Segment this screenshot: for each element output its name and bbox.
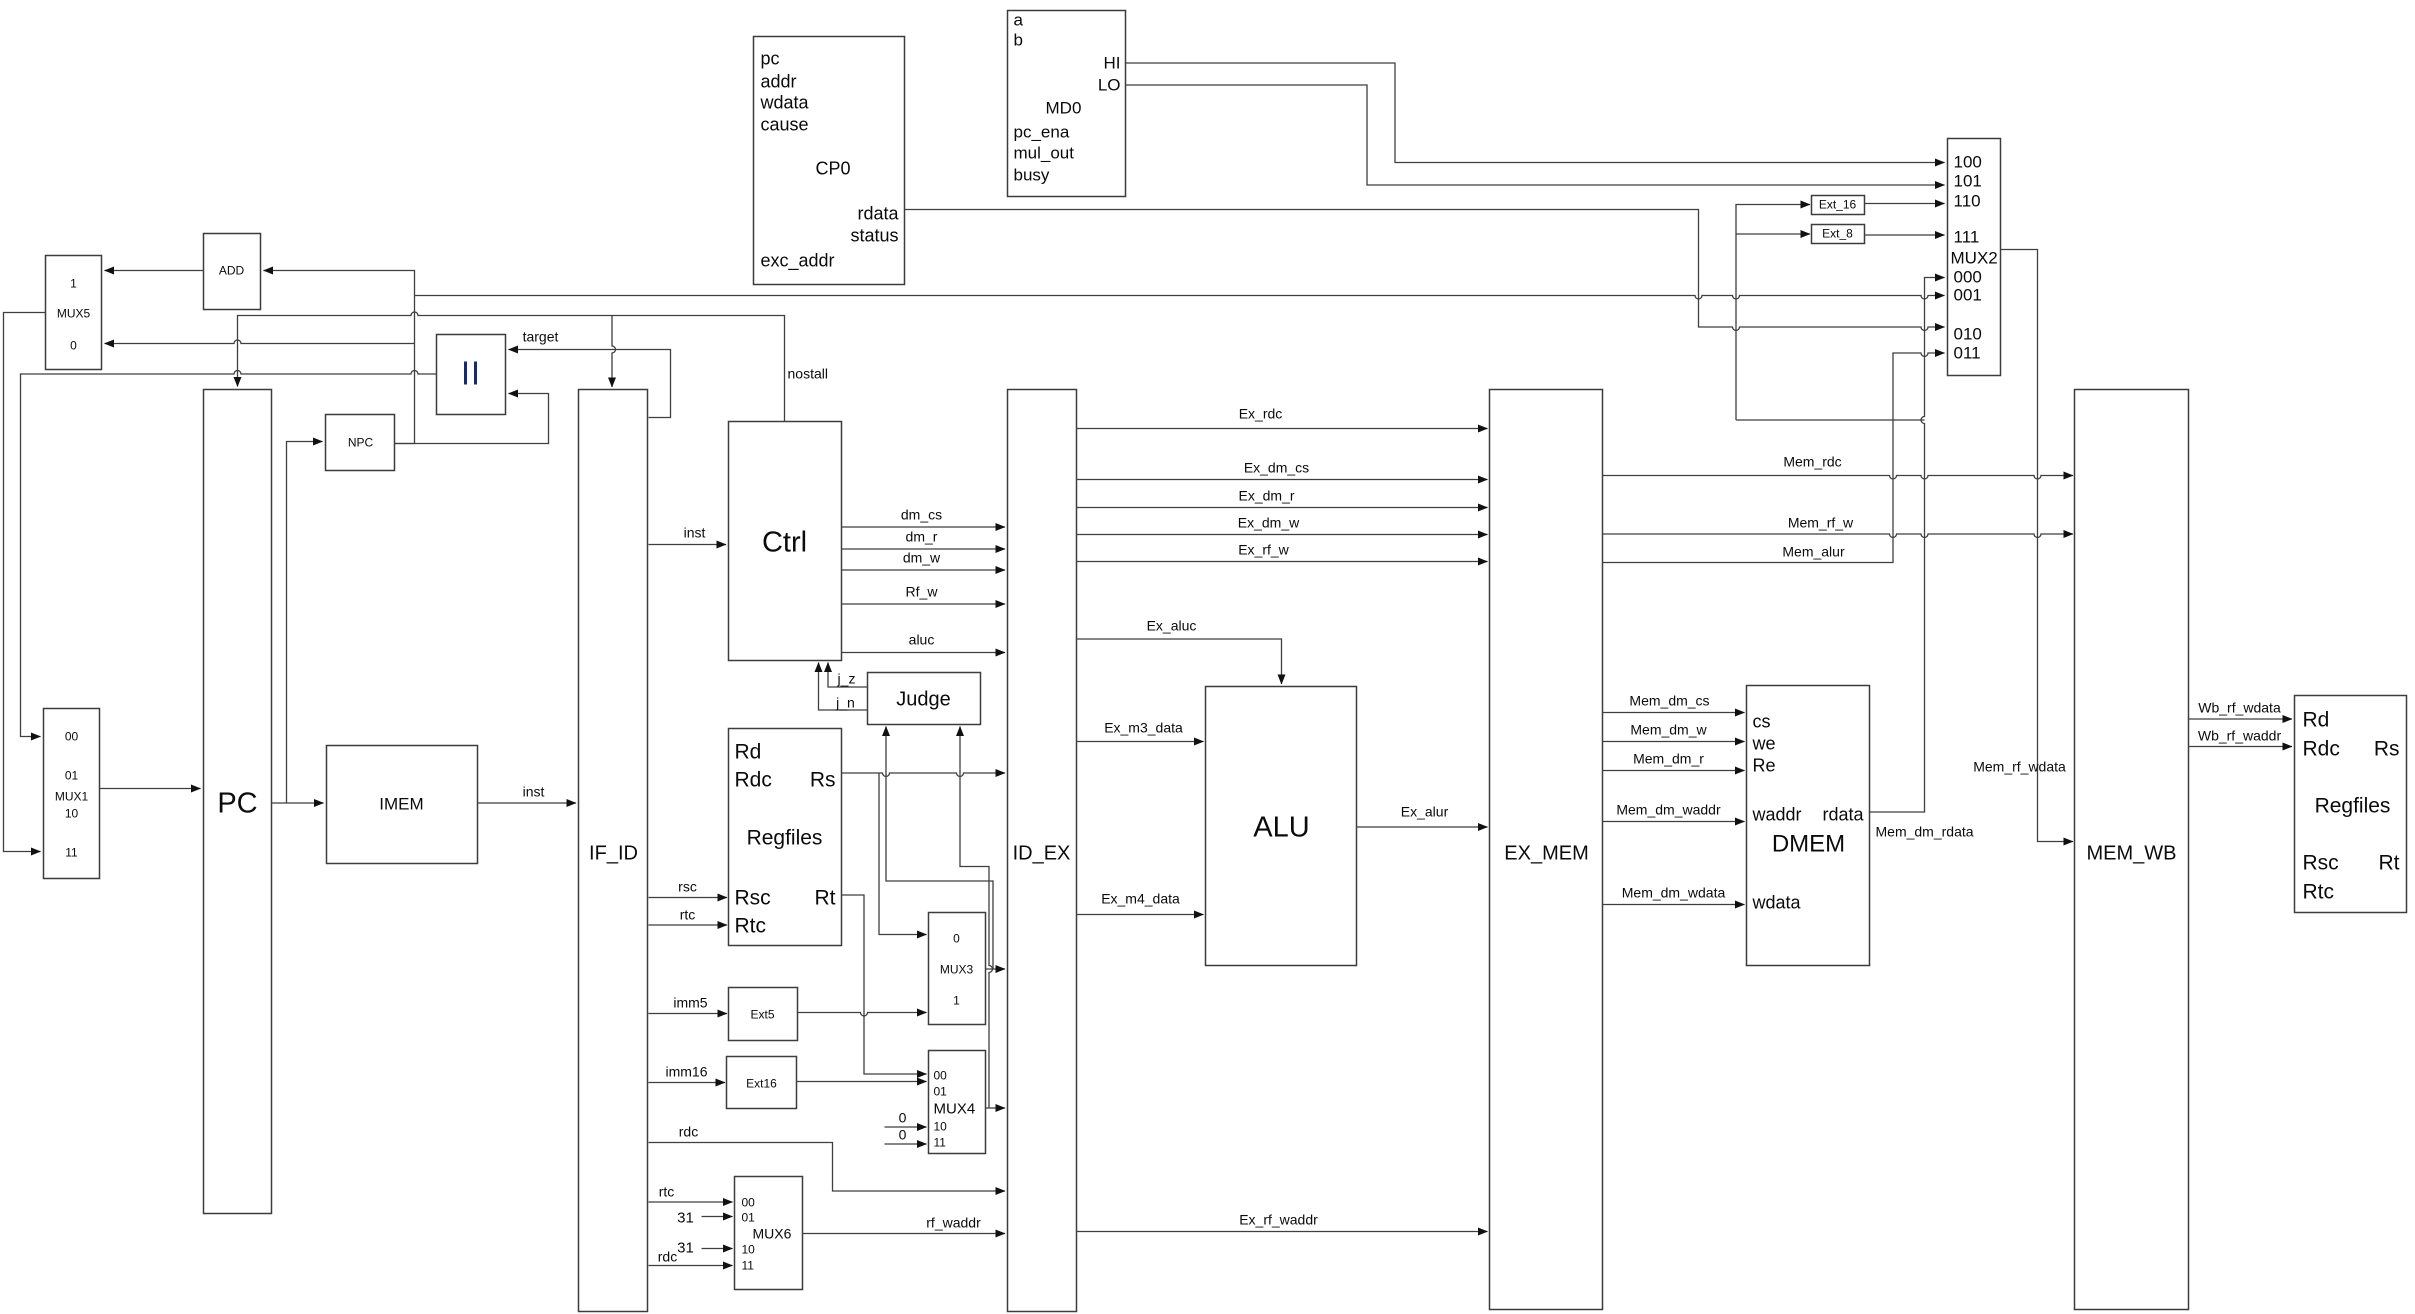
wire NPC output to concat unit lower input [395, 394, 549, 444]
svg-text:01: 01 [934, 1085, 948, 1099]
svg-text:EX_MEM: EX_MEM [1504, 843, 1588, 865]
svg-text:1: 1 [953, 994, 960, 1008]
IF_ID box [579, 390, 648, 1312]
MUX2 box [1948, 139, 2001, 376]
wire MUX2 output down to MEM_WB [2001, 250, 2074, 842]
svg-text:ID_EX: ID_EX [1013, 843, 1071, 865]
svg-text:Re: Re [1753, 756, 1776, 776]
svg-text:Rdc: Rdc [2303, 738, 2340, 761]
svg-text:IF_ID: IF_ID [589, 843, 638, 865]
svg-text:wdata: wdata [1752, 893, 1802, 913]
svg-text:10: 10 [934, 1120, 948, 1134]
svg-text:Ex_m4_data: Ex_m4_data [1101, 891, 1180, 907]
MUX6 box [735, 1177, 803, 1290]
wire PC output branch up to NPC input [287, 442, 323, 804]
svg-text:1: 1 [70, 277, 77, 291]
wire Rt output to MUX4 input 00 [842, 895, 927, 1074]
svg-text:Rs: Rs [2374, 738, 2400, 761]
svg-text:MUX3: MUX3 [940, 963, 974, 977]
svg-text:rdata: rdata [1822, 805, 1864, 825]
svg-text:Ex_dm_cs: Ex_dm_cs [1244, 460, 1309, 476]
svg-text:Rd: Rd [2303, 709, 2330, 732]
svg-text:Mem_dm_waddr: Mem_dm_waddr [1616, 802, 1721, 818]
svg-text:CP0: CP0 [816, 159, 851, 179]
svg-text:00: 00 [65, 730, 79, 744]
svg-text:waddr: waddr [1752, 805, 1802, 825]
svg-text:a: a [1014, 11, 1024, 30]
wire Ex_rf_w ID_EX to EX_MEM [1077, 561, 1488, 563]
wire MUX4 output branch up to Judge [960, 727, 993, 1109]
wire Rs branch to MUX3 input 0 [879, 773, 927, 935]
svg-text:0: 0 [953, 932, 960, 946]
wire inst from IF_ID to Ctrl [649, 544, 727, 546]
wire Ex_dm_r ID_EX to EX_MEM [1077, 507, 1488, 509]
svg-text:inst: inst [684, 525, 706, 541]
svg-text:11: 11 [65, 846, 78, 860]
svg-text:HI: HI [1104, 54, 1121, 73]
wire MUX3 output branch up to Judge [886, 727, 993, 970]
wire rsc IF_ID to Regfiles [649, 897, 728, 899]
wire Mem_dm_wdata EX_MEM to DMEM [1603, 904, 1745, 906]
MUX3 box [929, 913, 986, 1025]
wire Mem_dm_w EX_MEM to DMEM [1603, 741, 1745, 743]
wire node npc branch to MUX5 input 0 [105, 340, 415, 343]
svg-text:001: 001 [1954, 286, 1982, 305]
wire Ext5 output to MUX3 input 1 [798, 1013, 927, 1017]
svg-text:Ext5: Ext5 [750, 1008, 774, 1022]
wire Mem_dm_waddr EX_MEM to DMEM [1603, 821, 1745, 823]
svg-text:MUX2: MUX2 [1951, 249, 1998, 268]
svg-text:010: 010 [1954, 325, 1982, 344]
wire Ext_16 output to MUX2 input 110 [1865, 203, 1945, 205]
wire Mem_dm_cs EX_MEM to DMEM [1603, 712, 1745, 714]
wire target from IF_ID to concat unit [509, 350, 671, 418]
wire constant 0 to MUX4 input 10 [885, 1126, 927, 1128]
wire Ex_m3_data ID_EX to ALU [1077, 741, 1204, 743]
svg-text:Ex_alur: Ex_alur [1401, 804, 1449, 820]
svg-text:mul_out: mul_out [1014, 144, 1075, 163]
svg-text:pc_ena: pc_ena [1014, 123, 1070, 142]
svg-text:ADD: ADD [219, 264, 245, 278]
svg-text:Mem_dm_rdata: Mem_dm_rdata [1876, 824, 1974, 840]
wire rtc IF_ID to MUX6 input 00 [649, 1201, 733, 1203]
wire Mem_alur EX_MEM up to MUX2 input 011 [1603, 353, 1945, 563]
MUX1 box [44, 709, 100, 879]
svg-text:01: 01 [65, 769, 79, 783]
svg-text:aluc: aluc [909, 632, 935, 648]
DMEM box [1747, 686, 1870, 966]
svg-text:0: 0 [70, 339, 77, 353]
wire inst from IMEM to IF_ID [478, 802, 577, 804]
svg-text:Mem_dm_cs: Mem_dm_cs [1629, 693, 1709, 709]
ADD box [204, 234, 261, 310]
svg-text:rsc: rsc [678, 879, 697, 895]
wire Wb_rf_waddr MEM_WB to Regfiles Rdc [2189, 746, 2293, 748]
svg-text:PC: PC [217, 788, 257, 820]
wire constant 31 to MUX6 input 10 [702, 1248, 733, 1250]
wire concat output to MUX1 input 00 [21, 371, 437, 737]
wire Rs output to ID_EX [842, 773, 1006, 777]
wire rdc IF_ID to ID_EX [649, 1143, 1006, 1192]
svg-text:Rtc: Rtc [2303, 881, 2335, 904]
svg-text:011: 011 [1954, 344, 1981, 363]
wire DMEM rdata up to MUX2 input 000 [1870, 278, 1945, 813]
svg-text:11: 11 [742, 1259, 755, 1273]
concat unit || box [437, 335, 506, 415]
svg-text:rdc: rdc [658, 1249, 677, 1265]
NPC box [326, 415, 395, 471]
MUX5 box [46, 256, 102, 370]
svg-text:nostall: nostall [788, 366, 828, 382]
svg-text:b: b [1014, 31, 1023, 50]
svg-text:Mem_rdc: Mem_rdc [1783, 454, 1841, 470]
wire imm5 IF_ID to Ext5 [649, 1013, 728, 1015]
wire dm_w Ctrl to ID_EX [842, 569, 1006, 571]
svg-text:j_z: j_z [837, 671, 856, 687]
svg-text:0: 0 [899, 1127, 907, 1143]
svg-text:Ex_m3_data: Ex_m3_data [1104, 720, 1183, 736]
wire nostall branch down into IF_ID top [612, 316, 616, 388]
wire LO MD0 to MUX2 input 101 [1126, 85, 1945, 185]
svg-text:MEM_WB: MEM_WB [2087, 843, 2177, 865]
MD0 box [1008, 11, 1126, 197]
svg-text:Mem_dm_r: Mem_dm_r [1633, 751, 1704, 767]
svg-text:MUX4: MUX4 [934, 1101, 976, 1118]
svg-text:Ex_aluc: Ex_aluc [1147, 618, 1197, 634]
svg-text:wdata: wdata [760, 93, 810, 113]
svg-text:cause: cause [761, 115, 809, 135]
Regfiles right box [2295, 696, 2407, 913]
svg-text:Ctrl: Ctrl [762, 527, 807, 559]
svg-text:Regfiles: Regfiles [2315, 795, 2391, 818]
MUX4 box [929, 1051, 986, 1154]
wire j_z Judge to Ctrl [828, 663, 868, 688]
svg-text:MUX1: MUX1 [55, 790, 89, 804]
svg-text:10: 10 [65, 807, 79, 821]
wire rf_waddr MUX6 output to ID_EX [803, 1233, 1006, 1235]
svg-text:Mem_dm_wdata: Mem_dm_wdata [1622, 885, 1726, 901]
svg-text:rdata: rdata [857, 204, 899, 224]
svg-text:31: 31 [677, 1240, 694, 1257]
wire MUX4 output to ID_EX [986, 1107, 1006, 1109]
wire node ext feed horizontal [1736, 419, 1925, 421]
wire HI MD0 to MUX2 input 100 [1126, 63, 1945, 163]
wire MUX5 output to MUX1 input 11 [4, 313, 46, 852]
wire MUX1 output to PC [100, 788, 201, 790]
svg-text:Rsc: Rsc [735, 887, 771, 910]
svg-text:00: 00 [742, 1196, 756, 1210]
wire Rf_w Ctrl to ID_EX [842, 603, 1006, 605]
wire constant 31 to MUX6 input 01 [702, 1216, 733, 1218]
svg-text:111: 111 [1954, 228, 1980, 247]
svg-text:Ex_rf_w: Ex_rf_w [1238, 542, 1289, 558]
svg-text:000: 000 [1954, 268, 1982, 287]
wire dm_cs Ctrl to ID_EX [842, 526, 1006, 528]
svg-text:Rt: Rt [815, 887, 836, 910]
svg-text:Ext_8: Ext_8 [1822, 227, 1853, 241]
wire Mem_dm_r EX_MEM to DMEM [1603, 770, 1745, 772]
wire Ex_rdc ID_EX to EX_MEM [1077, 428, 1488, 430]
Ext_8 box [1812, 225, 1865, 244]
svg-text:Mem_dm_w: Mem_dm_w [1630, 722, 1707, 738]
svg-text:31: 31 [677, 1210, 694, 1227]
svg-text:target: target [523, 329, 559, 345]
wire Ex_aluc ID_EX to ALU top [1077, 639, 1282, 684]
svg-text:LO: LO [1098, 76, 1121, 95]
svg-text:rdc: rdc [679, 1124, 698, 1140]
svg-text:Regfiles: Regfiles [747, 827, 823, 850]
wire ext feed to Ext_8 [1736, 233, 1810, 235]
wire dm_r Ctrl to ID_EX [842, 548, 1006, 550]
wire imm16 IF_ID to Ext16 [649, 1082, 726, 1084]
svg-text:Ex_rdc: Ex_rdc [1239, 406, 1283, 422]
svg-text:101: 101 [1954, 172, 1982, 191]
ID_EX box [1008, 390, 1077, 1312]
CP0 box [754, 37, 905, 285]
svg-text:Ex_rf_waddr: Ex_rf_waddr [1239, 1212, 1318, 1228]
svg-text:Rd: Rd [735, 741, 762, 764]
svg-text:MUX5: MUX5 [57, 307, 91, 321]
svg-text:Ex_dm_r: Ex_dm_r [1238, 488, 1294, 504]
svg-text:01: 01 [742, 1211, 756, 1225]
wire CP0 rdata to MUX2 input 010 [905, 210, 1945, 331]
svg-text:Rt: Rt [2379, 852, 2400, 875]
svg-text:Rdc: Rdc [735, 769, 772, 792]
wire ADD output to MUX5 input 1 [105, 270, 204, 272]
svg-text:dm_r: dm_r [906, 529, 938, 545]
svg-text:MUX6: MUX6 [753, 1226, 792, 1242]
svg-text:inst: inst [523, 784, 545, 800]
svg-text:11: 11 [934, 1136, 947, 1150]
wire constant 0 to MUX4 input 11 [885, 1143, 927, 1145]
svg-text:Wb_rf_wdata: Wb_rf_wdata [2198, 700, 2281, 716]
svg-text:10: 10 [742, 1243, 756, 1257]
wire Ext_8 output to MUX2 input 111 [1865, 234, 1945, 236]
wire Ex_m4_data ID_EX to ALU [1077, 914, 1204, 916]
svg-text:ALU: ALU [1253, 812, 1309, 844]
Ext5 box [729, 988, 798, 1041]
svg-text:NPC: NPC [348, 436, 374, 450]
wire rtc IF_ID to Regfiles [649, 924, 728, 926]
svg-text:dm_w: dm_w [903, 550, 941, 566]
svg-text:Mem_rf_wdata: Mem_rf_wdata [1973, 759, 2066, 775]
Judge box [868, 673, 981, 725]
wire ext feed up to Ext_16 [1736, 205, 1810, 421]
wire Wb_rf_wdata MEM_WB to Regfiles Rd [2189, 718, 2293, 720]
svg-text:IMEM: IMEM [379, 795, 423, 814]
PC box [204, 390, 272, 1214]
Ctrl box [729, 422, 842, 661]
svg-text:Rsc: Rsc [2303, 852, 2339, 875]
wire Ex_rf_waddr ID_EX to EX_MEM [1077, 1231, 1488, 1233]
svg-text:j_n: j_n [835, 695, 855, 711]
svg-text:we: we [1752, 734, 1776, 754]
svg-text:Ex_dm_w: Ex_dm_w [1238, 515, 1300, 531]
svg-text:Rs: Rs [810, 769, 836, 792]
svg-text:status: status [850, 226, 898, 246]
svg-text:Mem_alur: Mem_alur [1782, 544, 1845, 560]
svg-text:00: 00 [934, 1069, 948, 1083]
svg-text:Rtc: Rtc [735, 915, 767, 938]
svg-text:110: 110 [1954, 192, 1981, 211]
svg-text:cs: cs [1753, 712, 1771, 732]
wire Ex_alur ALU to EX_MEM [1357, 826, 1488, 828]
svg-text:busy: busy [1014, 166, 1050, 185]
svg-text:rtc: rtc [680, 907, 696, 923]
wire nostall from Ctrl top to PC top [238, 312, 785, 421]
wire rdc IF_ID to MUX6 input 11 [649, 1265, 733, 1267]
svg-text:rf_waddr: rf_waddr [926, 1215, 981, 1231]
svg-text:DMEM: DMEM [1772, 831, 1845, 858]
wire Ex_dm_w ID_EX to EX_MEM [1077, 534, 1488, 536]
svg-text:Wb_rf_waddr: Wb_rf_waddr [2198, 728, 2282, 744]
wire aluc Ctrl to ID_EX [842, 652, 1006, 654]
wire j_n Judge to Ctrl [819, 663, 868, 711]
wire npc branch long line to MUX2 input 001 [415, 296, 1945, 300]
svg-text:imm16: imm16 [665, 1064, 707, 1080]
wire Mem_rdc EX_MEM to MEM_WB [1603, 476, 2074, 480]
wire Mem_rf_w EX_MEM to MEM_WB [1603, 534, 2074, 538]
Regfiles left box [729, 729, 842, 946]
svg-text:exc_addr: exc_addr [761, 251, 835, 272]
Ext16 box [727, 1057, 797, 1109]
wire Ext16 output to MUX4 input 01 [797, 1081, 927, 1083]
ALU box [1206, 687, 1357, 966]
IMEM box [327, 746, 478, 864]
svg-text:dm_cs: dm_cs [901, 507, 942, 523]
svg-text:100: 100 [1954, 153, 1982, 172]
svg-text:rtc: rtc [659, 1184, 675, 1200]
svg-text:Ext16: Ext16 [746, 1077, 777, 1091]
wire PC output to IMEM [272, 802, 324, 804]
svg-text:Mem_rf_w: Mem_rf_w [1788, 515, 1854, 531]
svg-text:MD0: MD0 [1046, 99, 1082, 118]
MEM_WB box [2075, 390, 2189, 1310]
EX_MEM box [1490, 390, 1603, 1310]
svg-text:pc: pc [761, 49, 780, 69]
wire MUX3 output to ID_EX [986, 968, 1006, 970]
svg-text:Judge: Judge [896, 689, 951, 711]
svg-text:Rf_w: Rf_w [906, 584, 939, 600]
Ext_16 box [1812, 196, 1865, 215]
svg-text:0: 0 [899, 1110, 907, 1126]
svg-text:imm5: imm5 [673, 995, 707, 1011]
svg-text:addr: addr [761, 72, 797, 92]
svg-text:Ext_16: Ext_16 [1819, 198, 1857, 212]
wire Ex_dm_cs ID_EX to EX_MEM [1077, 479, 1488, 481]
wire NPC output up to ADD input [264, 271, 415, 444]
